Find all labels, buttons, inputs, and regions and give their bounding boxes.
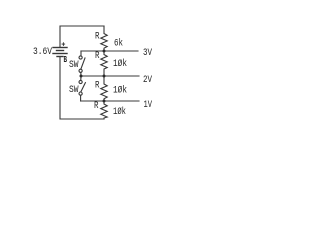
battery B 3.6V — [53, 48, 67, 57]
wire: 2V tap — [81, 75, 139, 77]
svg-text:1Øk: 1Øk — [113, 106, 126, 118]
svg-text:SW: SW — [69, 60, 79, 71]
node: 3V tap junction — [103, 50, 106, 53]
svg-text:3V: 3V — [143, 48, 152, 59]
svg-text:2V: 2V — [143, 75, 152, 86]
node: 2V tap junction — [103, 75, 106, 78]
svg-text:B: B — [64, 55, 68, 65]
svg-text:1V: 1V — [144, 100, 153, 111]
resistor R2 10k — [101, 51, 107, 76]
node: SW1/SW2 junction on 2V tap — [80, 75, 83, 78]
svg-text:1Øk: 1Øk — [113, 84, 127, 96]
svg-text:3.6V: 3.6V — [33, 47, 52, 58]
svg-text:R: R — [95, 51, 100, 62]
node: 1V tap junction — [103, 100, 106, 103]
switch SW2 — [79, 76, 85, 101]
resistor R3 10k — [101, 76, 107, 101]
wire: battery- down to bottom rail to R4 bottom — [60, 57, 104, 119]
wire: 3V tap — [81, 50, 138, 52]
resistor R1 6k — [101, 26, 107, 51]
wire: top rail battery+ to R1 top — [60, 26, 104, 47]
svg-text:1Øk: 1Øk — [113, 58, 127, 70]
svg-text:SW: SW — [69, 85, 79, 96]
svg-text:R: R — [94, 101, 99, 112]
svg-text:R: R — [95, 32, 100, 43]
switch SW1 — [79, 51, 85, 76]
wire: 1V tap (SW2 bottom corner to right) — [81, 100, 139, 102]
resistor R4 10k — [101, 101, 107, 119]
svg-text:+: + — [61, 41, 65, 49]
svg-text:6k: 6k — [114, 38, 123, 50]
svg-text:R: R — [95, 81, 100, 92]
